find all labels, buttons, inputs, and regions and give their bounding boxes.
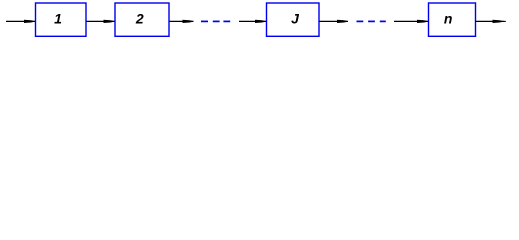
wire: output arrow from block n <box>476 20 504 22</box>
block 1 <box>36 3 87 36</box>
wire: arrow into block J <box>239 20 266 22</box>
svg-text:1: 1 <box>54 11 62 27</box>
svg-text:n: n <box>444 11 453 27</box>
wire: arrow block 1 to block 2 <box>86 20 115 22</box>
block n <box>429 3 476 36</box>
wire: dashed continuation (ellipsis) <box>357 20 386 22</box>
svg-text:2: 2 <box>135 11 144 27</box>
wire: input arrow into block 1 <box>6 20 35 22</box>
svg-text:J: J <box>291 11 300 27</box>
wire: arrow into block n <box>394 20 428 22</box>
wire: arrow out of block J <box>319 20 348 22</box>
wire: dashed continuation (ellipsis) <box>201 20 230 22</box>
background <box>0 0 519 48</box>
wire: output arrow tip tail <box>503 20 506 22</box>
block 2 <box>115 3 169 36</box>
wire: arrow out of block 2 <box>170 20 194 22</box>
block J <box>267 3 320 36</box>
